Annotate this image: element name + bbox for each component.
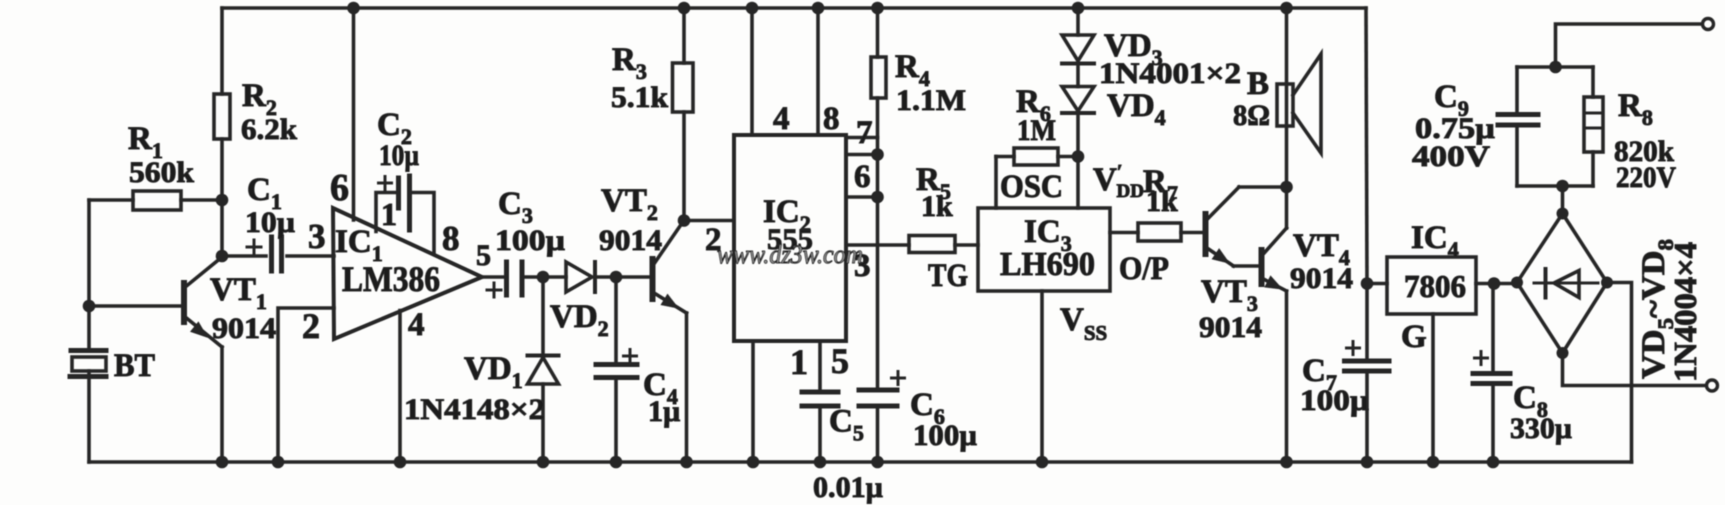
wire: IC1 pin 4 to ground <box>398 311 402 463</box>
wire: network top to AC terminal <box>1556 24 1703 67</box>
piezo sounder BT <box>70 348 155 462</box>
junction: IC4 input tap <box>1361 277 1374 290</box>
capacitor C6 <box>859 372 977 463</box>
junction: VD3 on top rail <box>1072 2 1085 15</box>
pin 5 label (IC1) <box>476 239 491 272</box>
svg-text:5.1k: 5.1k <box>611 81 668 114</box>
svg-text:400V: 400V <box>1412 140 1490 173</box>
value label 1N4001x2 <box>1099 57 1241 90</box>
capacitor C2 <box>376 107 434 254</box>
svg-text:TG: TG <box>928 258 968 294</box>
watermark www.dz3w.com <box>717 240 863 269</box>
pin 6 label (555) <box>854 159 871 195</box>
svg-text:LH690: LH690 <box>1000 246 1095 283</box>
regulator IC4 7806 <box>1367 220 1517 462</box>
junction: pin6 wire on top rail <box>347 2 360 15</box>
svg-text:1k: 1k <box>921 190 953 223</box>
op-amp IC1 LM386 <box>333 208 482 339</box>
junction: C8 on ground rail <box>1487 456 1500 469</box>
svg-text:1k: 1k <box>1146 185 1178 218</box>
junction: bridge right corner <box>1601 277 1613 289</box>
svg-text:100µ: 100µ <box>495 224 565 257</box>
pin 8 label (555) <box>823 101 840 137</box>
pin 6 label (IC1) <box>330 167 349 209</box>
resistor R8 dropper branch <box>1584 67 1676 194</box>
junction: bridge left corner <box>1511 277 1523 289</box>
svg-text:6.2k: 6.2k <box>241 113 297 146</box>
svg-text:1N4001×2: 1N4001×2 <box>1099 57 1241 90</box>
junction: VT1 base node <box>83 300 96 313</box>
junction: VT4 emitter on ground rail <box>1280 456 1293 469</box>
svg-text:9014: 9014 <box>1290 262 1353 295</box>
svg-text:9014: 9014 <box>599 224 662 257</box>
junction: bridge bottom corner <box>1557 347 1569 359</box>
junction: C7 on ground rail <box>1361 456 1374 469</box>
junction: IC4 ground pin on rail <box>1427 456 1440 469</box>
svg-text:1N4004×4: 1N4004×4 <box>1667 242 1703 382</box>
svg-text:100µ: 100µ <box>1300 384 1369 417</box>
junction: C4 on ground rail <box>610 456 623 469</box>
capacitor C8 <box>1473 284 1572 463</box>
label VD5~VD8 (rotated) <box>1636 239 1678 379</box>
junction: C3/VD1/VD2 node <box>537 271 550 284</box>
svg-text:OSC: OSC <box>1000 169 1063 205</box>
bridge rectifier VD5-VD8 <box>1517 214 1607 354</box>
junction: C6 on ground rail <box>871 456 884 469</box>
oscillator resistor R6 with OSC box <box>996 84 1078 208</box>
svg-text:8: 8 <box>442 219 460 258</box>
wire: top supply rail <box>222 6 1366 10</box>
svg-text:4: 4 <box>408 307 425 343</box>
pin 4 label (555) <box>773 101 790 137</box>
wire: IC1 output <box>482 275 507 279</box>
junction: 555 pin 8 on top rail <box>812 2 825 15</box>
transistor VT3 9014 <box>1199 187 1287 344</box>
wire: 555 pin 7 stub <box>846 136 878 140</box>
pin 1 label (IC1) <box>381 196 397 232</box>
wire: bridge bottom to AC terminal <box>1563 353 1707 386</box>
pin 5 label (555) <box>831 341 849 381</box>
diode VD2 <box>543 262 616 341</box>
junction: pin7/R4 node <box>871 148 884 161</box>
resistor R7 <box>1110 164 1204 241</box>
pin 2 label (555) <box>705 222 722 258</box>
svg-text:BT: BT <box>114 348 155 384</box>
junction: speaker wire on top rail <box>1280 2 1293 15</box>
pin 3 label (IC1) <box>308 217 326 256</box>
capacitor C3 <box>487 186 565 297</box>
junction: R4 on top rail <box>871 2 884 15</box>
wire: bottom ground rail <box>89 460 1632 464</box>
svg-text:100µ: 100µ <box>913 419 977 452</box>
svg-text:3: 3 <box>308 217 326 256</box>
junction: VT4 collector / speaker node <box>1280 181 1293 194</box>
svg-text:8: 8 <box>823 101 840 137</box>
svg-text:7806: 7806 <box>1404 268 1466 304</box>
junction: dropper network bottom <box>1556 180 1569 193</box>
wire: IC1 pin 6 to supply <box>352 8 356 220</box>
junction: R2/C1/VT1 collector node <box>216 250 229 263</box>
junction: VD1 on ground rail <box>537 456 550 469</box>
resistor R2 <box>214 8 297 256</box>
svg-text:1.1M: 1.1M <box>896 84 966 117</box>
junction: VD2/C4/VT2 base node <box>610 271 623 284</box>
resistor R5 <box>909 162 978 294</box>
resistor R3 <box>611 8 693 221</box>
timer IC2 555 <box>734 135 846 341</box>
svg-text:6: 6 <box>330 167 349 209</box>
junction: C8 tap <box>1488 277 1501 290</box>
junction: pin2 wire on ground rail <box>272 456 285 469</box>
capacitor C5 <box>802 341 864 462</box>
svg-text:5: 5 <box>476 239 491 272</box>
junction: VT2 emitter on ground rail <box>680 456 693 469</box>
svg-text:5: 5 <box>831 341 849 381</box>
svg-text:4: 4 <box>773 101 790 137</box>
wire: 555 pin 1 to ground <box>751 341 755 462</box>
svg-text:330µ: 330µ <box>1510 412 1572 445</box>
pin 2 label (IC1) <box>302 306 320 346</box>
label 1N4004x4 (rotated) <box>1667 242 1703 382</box>
capacitor C7 <box>1300 8 1389 462</box>
svg-text:1: 1 <box>381 196 397 232</box>
capacitor C9 dropper branch <box>1412 67 1593 186</box>
value label 0.01µ <box>813 471 883 504</box>
IC IC3 LH690 <box>978 208 1110 291</box>
svg-text:2: 2 <box>302 306 320 346</box>
svg-text:1µ: 1µ <box>648 395 680 428</box>
pin 3 label (555) <box>854 248 871 284</box>
wire: 555 pin 4 to supply <box>750 8 754 135</box>
wire: IC3 Vss to ground <box>1042 291 1107 462</box>
terminal: AC input bottom <box>1707 380 1718 391</box>
transistor VT1 9014 <box>184 257 276 462</box>
junction: Vss on ground rail <box>1036 456 1049 469</box>
pin 7 label (555) <box>856 115 873 151</box>
diode VD4 <box>1062 64 1166 157</box>
label O/P <box>1119 251 1169 287</box>
transistor VT2 9014 <box>599 183 687 462</box>
svg-text:7: 7 <box>856 115 873 151</box>
svg-text:10µ: 10µ <box>245 206 295 239</box>
svg-text:8Ω: 8Ω <box>1233 99 1270 132</box>
junction: C5 on ground rail <box>814 456 827 469</box>
diode VD3 <box>1062 8 1163 70</box>
pin 1 label (555) <box>790 342 808 382</box>
capacitor C4 <box>596 277 680 462</box>
speaker B 8ohm <box>1233 8 1321 187</box>
svg-text:9014: 9014 <box>1199 311 1262 344</box>
svg-text:9014: 9014 <box>212 312 276 345</box>
wire: left branch down from R1 <box>87 200 91 349</box>
junction: pin4 wire on ground rail <box>394 456 407 469</box>
junction: R1/R2 node <box>216 194 229 207</box>
pin 4 label (IC1) <box>408 307 425 343</box>
transistor VT4 9014 <box>1262 187 1354 462</box>
svg-text:1M: 1M <box>1017 114 1056 147</box>
svg-text:O/P: O/P <box>1119 251 1169 287</box>
junction: dropper network top <box>1549 61 1562 74</box>
wire: IC1 pin 2 to ground <box>278 308 334 462</box>
wire: 555 pin 3 output <box>846 243 909 247</box>
svg-text:LM386: LM386 <box>342 259 440 299</box>
junction: bridge top corner <box>1557 208 1569 220</box>
wire: base feed to VT1 <box>89 304 184 308</box>
wire: 555 pin 8 to supply <box>816 8 820 135</box>
junction: 555 pin 4 on top rail <box>746 2 759 15</box>
svg-text:B: B <box>1247 66 1269 102</box>
resistor R1 <box>89 121 222 210</box>
diode VD1 <box>404 277 559 462</box>
svg-text:1: 1 <box>790 342 808 382</box>
junction: VT2 collector node <box>678 214 691 227</box>
wire: bridge right corner to ground rail <box>1607 283 1632 463</box>
resistor R4 <box>871 8 966 390</box>
capacitor C1 <box>222 172 334 271</box>
junction: VDD' node <box>1072 150 1085 163</box>
terminal: AC input top <box>1703 19 1714 30</box>
label VDD' <box>1093 161 1144 202</box>
svg-text:560k: 560k <box>129 156 194 189</box>
junction: pin1 on ground rail <box>747 456 760 469</box>
wire: VT2 collector to 555 pin 2 <box>684 219 734 223</box>
junction: pin6 node <box>871 191 884 204</box>
junction: VT1 emitter on ground rail <box>216 456 229 469</box>
svg-text:10µ: 10µ <box>379 139 419 172</box>
svg-text:220V: 220V <box>1616 161 1676 194</box>
svg-text:0.01µ: 0.01µ <box>813 471 883 504</box>
pin 6 connection box (555) <box>846 155 878 198</box>
svg-text:6: 6 <box>854 159 871 195</box>
svg-text:1N4148×2: 1N4148×2 <box>404 393 545 426</box>
svg-text:G: G <box>1401 319 1427 355</box>
pin 8 label (IC1) <box>442 219 460 258</box>
svg-text:www.dz3w.com: www.dz3w.com <box>717 240 863 269</box>
wire: bridge top to dropper network <box>1561 186 1565 214</box>
junction: R3 on top rail <box>678 2 691 15</box>
